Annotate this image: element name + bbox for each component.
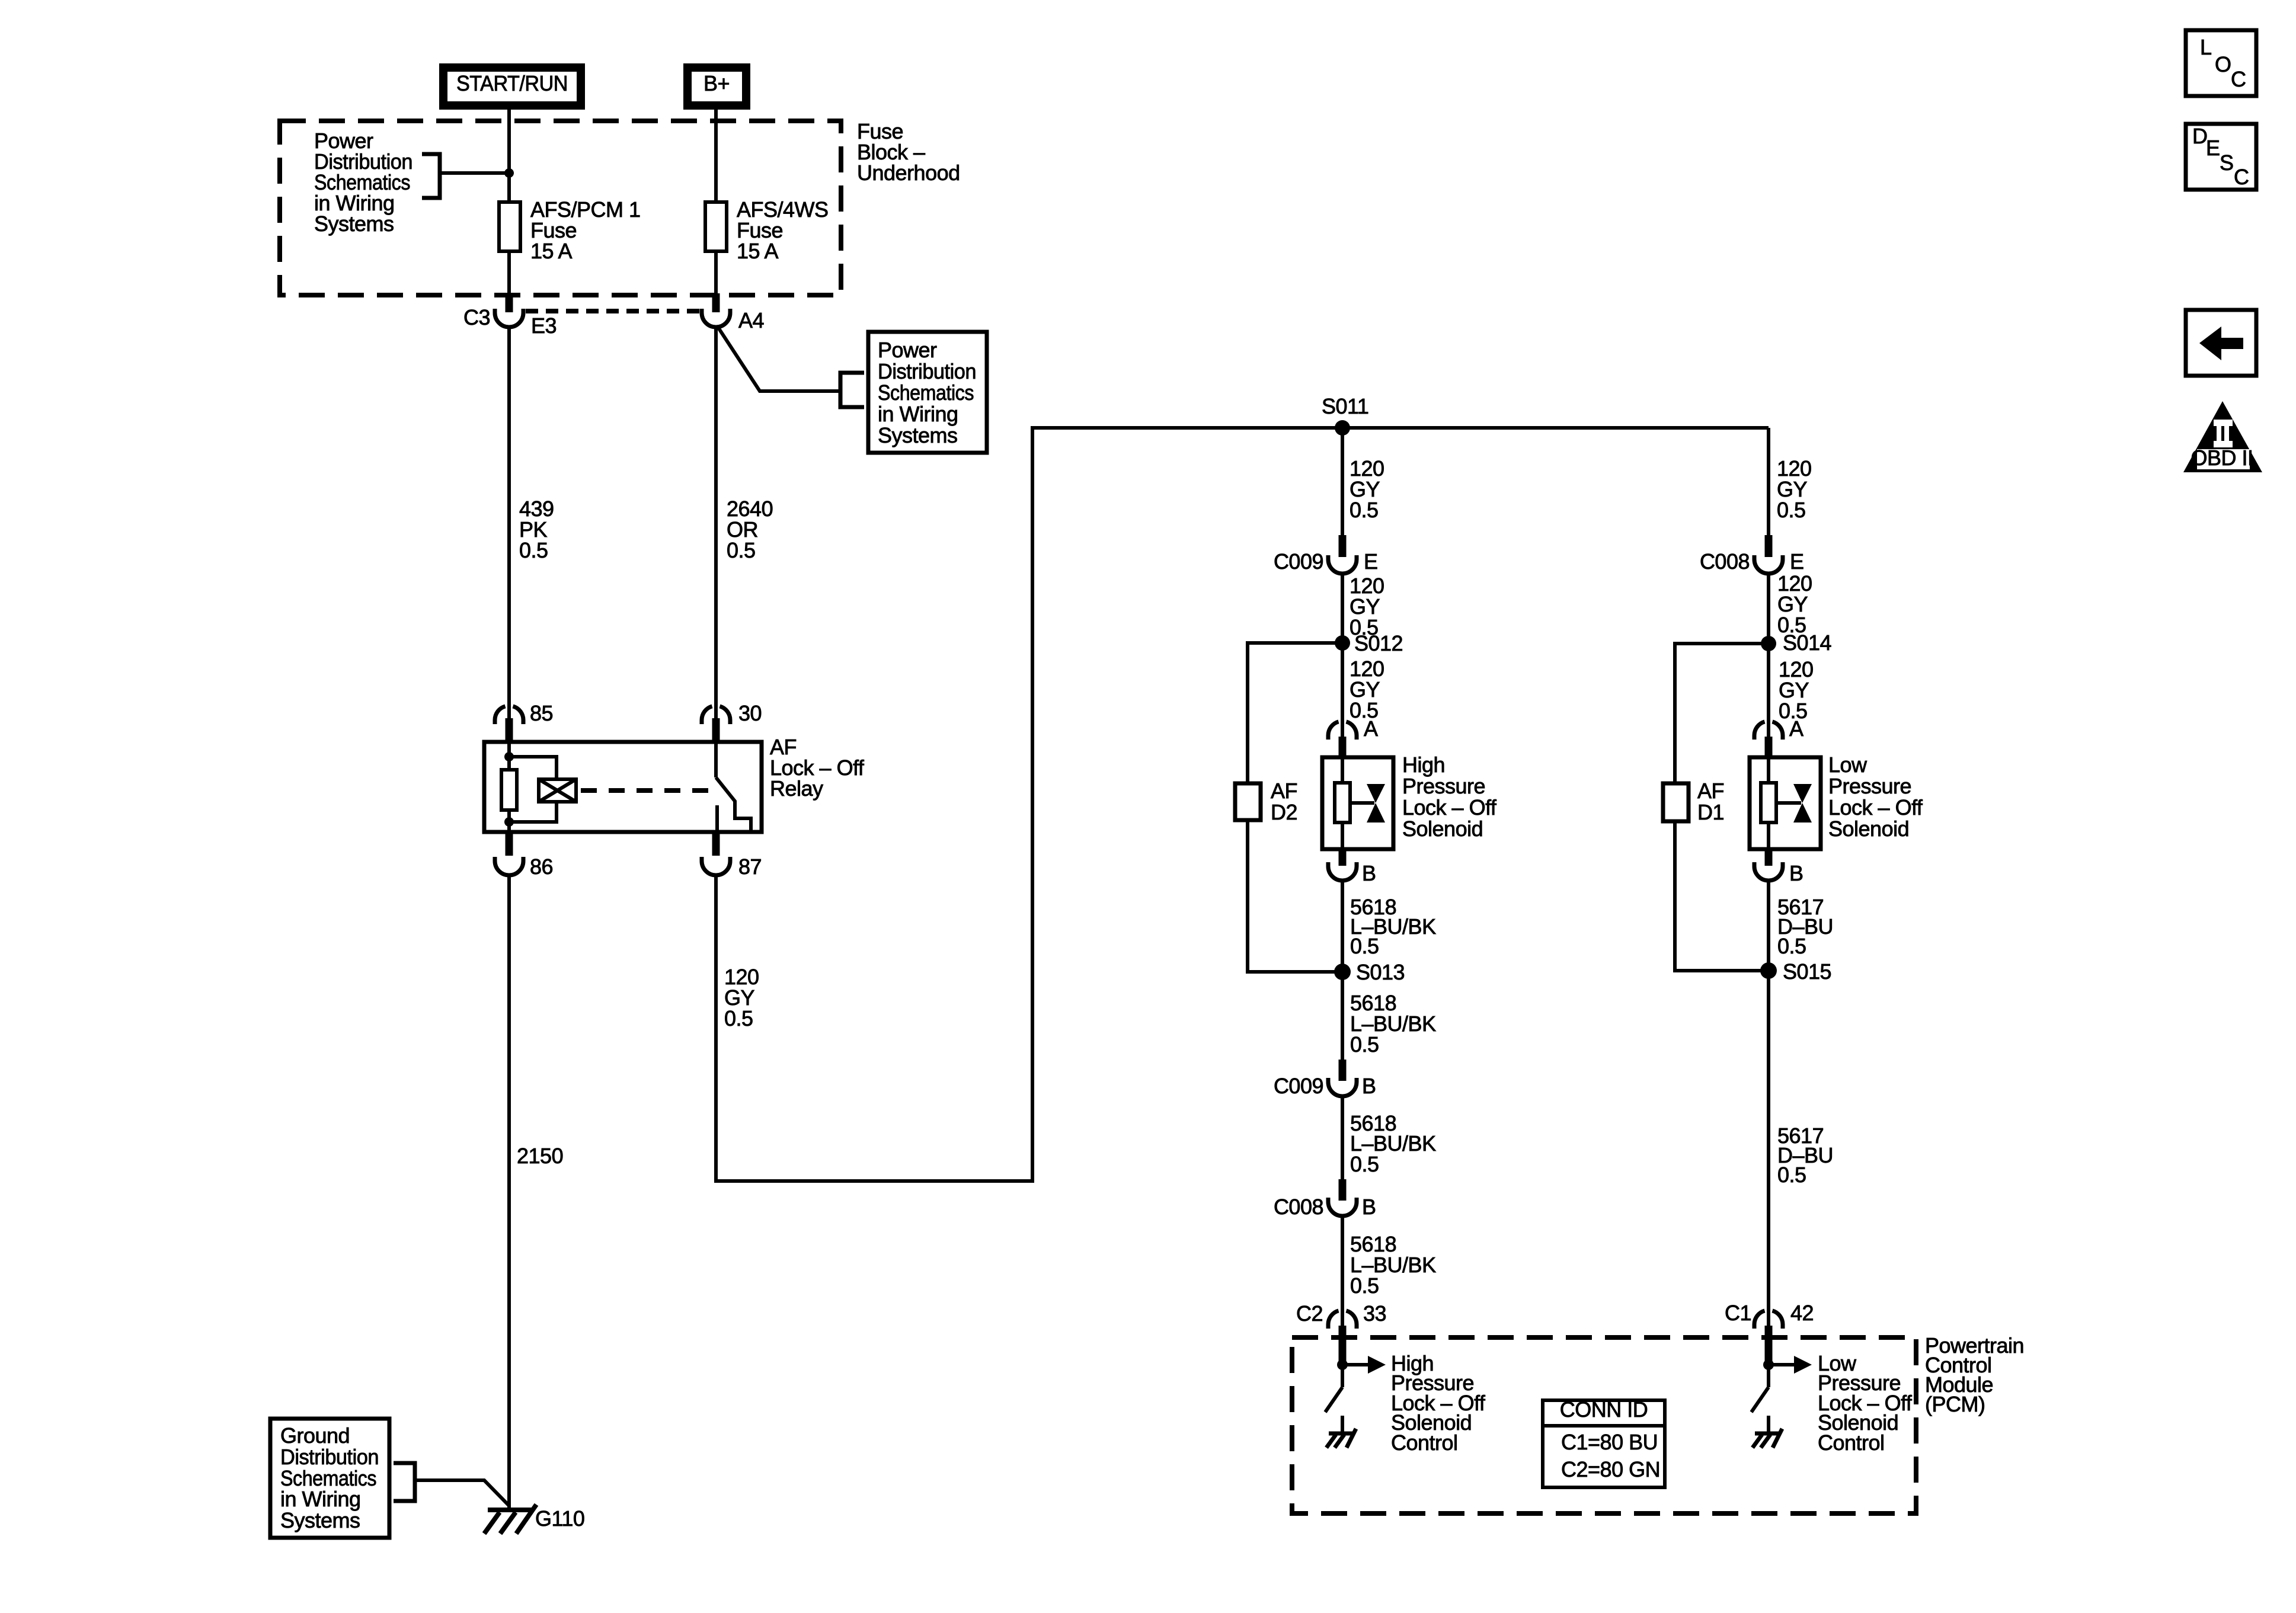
solenoid L High Pressure Lock-Off Solenoid outline xyxy=(1322,757,1393,849)
svg-text:E: E xyxy=(2206,136,2220,160)
resistor solenoid winding xyxy=(1761,783,1776,822)
wire solenoid valve link xyxy=(1776,801,1801,805)
wire A4 reference to Power Distribution Schematics xyxy=(717,326,839,391)
svg-text:Systems: Systems xyxy=(314,212,394,236)
svg-text:0.5: 0.5 xyxy=(727,538,756,562)
svg-text:A4: A4 xyxy=(738,308,764,332)
icon DESC box xyxy=(2186,124,2256,190)
wire 5618 to S013 xyxy=(1341,879,1344,1061)
wire coil top to operator box xyxy=(509,757,557,779)
wire START/RUN to fuse AFS/PCM 1 xyxy=(507,110,511,201)
valve bowtie symbol xyxy=(1367,784,1385,803)
svg-text:85: 85 xyxy=(530,701,553,725)
connector pin A high pressure solenoid xyxy=(1328,722,1357,740)
box Ground Distribution Schematics in Wiring Systems xyxy=(270,1419,389,1538)
svg-text:C008: C008 xyxy=(1700,549,1750,574)
svg-text:33: 33 xyxy=(1363,1301,1386,1326)
valve bowtie symbol xyxy=(1793,784,1812,803)
wire C008 E to S014 xyxy=(1767,574,1770,737)
wire solenoid valve link xyxy=(1350,801,1374,805)
svg-text:in Wiring: in Wiring xyxy=(878,402,958,426)
ground G110 symbol xyxy=(488,1508,533,1512)
node relay coil bottom junction xyxy=(504,817,514,827)
svg-text:30: 30 xyxy=(738,701,762,725)
wire reference stub to Power Distribution Schematics xyxy=(441,171,509,175)
relay K AF Lock-Off Relay outline xyxy=(484,742,762,832)
svg-text:G110: G110 xyxy=(535,1506,584,1531)
connector C009 pin B xyxy=(1339,1060,1347,1081)
wire C008 B to PCM C2 33 xyxy=(1341,1216,1344,1326)
svg-text:0.5: 0.5 xyxy=(1350,1032,1379,1057)
svg-text:C009: C009 xyxy=(1274,549,1323,574)
svg-text:D2: D2 xyxy=(1271,800,1297,824)
svg-text:Systems: Systems xyxy=(878,423,958,447)
svg-text:A: A xyxy=(1364,716,1378,741)
node PCM low pressure input junction xyxy=(1763,1359,1774,1370)
svg-text:Systems: Systems xyxy=(280,1508,360,1532)
wire 5617 to S015 and PCM C1 42 xyxy=(1767,879,1770,1326)
module PCM dashed outline xyxy=(1292,1337,1916,1513)
svg-text:B: B xyxy=(1789,861,1803,885)
connector pin B low pressure solenoid xyxy=(1765,850,1773,866)
wire S014 branch to S015 xyxy=(1675,644,1769,971)
svg-text:S012: S012 xyxy=(1354,631,1403,655)
svg-text:AF: AF xyxy=(1271,779,1297,803)
svg-text:S: S xyxy=(2220,151,2234,175)
connector pin 87 of relay xyxy=(712,833,720,856)
box Power Distribution Schematics in Wiring Systems xyxy=(868,332,987,453)
svg-text:42: 42 xyxy=(1790,1301,1814,1325)
wire solenoid internal bottom xyxy=(1341,822,1344,849)
svg-text:S013: S013 xyxy=(1356,960,1405,984)
svg-text:B: B xyxy=(1362,1195,1376,1219)
svg-text:Lock – Off: Lock – Off xyxy=(1402,795,1497,820)
svg-text:0.5: 0.5 xyxy=(1350,934,1379,958)
fuse block underhood dashed outline xyxy=(280,121,841,295)
svg-text:Low: Low xyxy=(1828,753,1868,777)
wire ground reference stub xyxy=(415,1480,510,1506)
svg-text:B: B xyxy=(1362,861,1376,885)
svg-text:C009: C009 xyxy=(1274,1074,1323,1098)
svg-text:C: C xyxy=(2234,165,2249,189)
wire relay coil left leg xyxy=(507,742,511,770)
svg-text:C1: C1 xyxy=(1725,1301,1751,1325)
node splice S012 xyxy=(1335,635,1350,651)
wire C009 B to C008 B xyxy=(1341,1096,1344,1180)
svg-text:A: A xyxy=(1789,716,1803,741)
wire S012 branch to S013 xyxy=(1248,643,1342,972)
connector pin A low pressure solenoid xyxy=(1754,722,1783,740)
connector A4 xyxy=(712,293,720,312)
svg-text:86: 86 xyxy=(530,854,553,879)
wire B+ to fuse AFS/4WS xyxy=(714,110,718,201)
relay switch contact stub to pin 87 xyxy=(715,805,719,832)
svg-text:Pressure: Pressure xyxy=(1402,774,1485,798)
connector pin B high pressure solenoid xyxy=(1339,850,1347,866)
wire dashed relay actuation link xyxy=(581,788,709,793)
node relay coil top junction xyxy=(504,752,514,761)
connector AF D1 inline box xyxy=(1663,783,1689,821)
bracket Power Distribution Schematics right box xyxy=(840,373,864,407)
relay switch blade xyxy=(716,777,751,832)
svg-text:87: 87 xyxy=(738,854,762,879)
wire coil bottom to operator box xyxy=(509,802,557,822)
svg-text:Control: Control xyxy=(1818,1430,1885,1455)
switch PCM low pressure driver xyxy=(1767,1365,1770,1387)
wire solenoid internal top xyxy=(1341,757,1344,784)
wire S011 bus to C008 E xyxy=(1767,428,1770,536)
ground PCM low pressure xyxy=(1767,1416,1770,1432)
connector pin 85 of AF Lock-Off Relay xyxy=(495,706,523,724)
svg-text:Power: Power xyxy=(878,338,937,362)
wire relay coil left leg lower xyxy=(507,810,511,832)
svg-text:START/RUN: START/RUN xyxy=(456,71,568,95)
wire 2150 ground wire from pin 86 to G110 xyxy=(507,875,511,1508)
svg-text:CONN ID: CONN ID xyxy=(1560,1397,1648,1422)
node B+ power label box xyxy=(687,68,746,105)
node splice S011 xyxy=(1335,420,1350,436)
node splice S013 xyxy=(1334,964,1351,980)
wire C009 E to S012 xyxy=(1341,574,1344,737)
bracket Ground Distribution reference xyxy=(394,1463,415,1501)
svg-text:2150: 2150 xyxy=(517,1144,563,1168)
wire dashed connector tie C3 to A4 xyxy=(526,309,702,313)
svg-text:E: E xyxy=(1364,549,1378,574)
svg-text:(PCM): (PCM) xyxy=(1925,1392,1985,1416)
svg-text:E: E xyxy=(1790,549,1804,574)
table CONN ID xyxy=(1543,1400,1665,1487)
wire 2640 OR 0.5 from A4 to relay pin 30 xyxy=(714,327,718,720)
wire fuse AFS/4WS to connector A4 xyxy=(714,251,718,296)
resistor solenoid winding xyxy=(1335,783,1350,822)
svg-text:OBD II: OBD II xyxy=(2191,446,2253,470)
connector C008 pin E xyxy=(1765,535,1773,557)
wire S011 to C009 E xyxy=(1341,428,1344,536)
svg-text:Pressure: Pressure xyxy=(1828,774,1911,798)
svg-text:S011: S011 xyxy=(1322,394,1368,418)
node junction on START/RUN feed xyxy=(504,168,514,178)
svg-text:0.5: 0.5 xyxy=(1350,1152,1379,1176)
svg-text:0.5: 0.5 xyxy=(1777,934,1806,958)
svg-text:L: L xyxy=(2200,35,2212,59)
svg-text:S014: S014 xyxy=(1783,631,1831,655)
svg-text:0.5: 0.5 xyxy=(1777,1163,1806,1187)
svg-text:AF: AF xyxy=(1697,779,1724,803)
svg-text:D: D xyxy=(2192,124,2208,148)
svg-text:C3: C3 xyxy=(463,305,490,329)
svg-text:in Wiring: in Wiring xyxy=(280,1487,361,1511)
icon LOC box xyxy=(2186,30,2256,96)
solenoid L Low Pressure Lock-Off Solenoid outline xyxy=(1750,757,1821,849)
connector C008 pin B xyxy=(1339,1179,1347,1201)
svg-text:Relay: Relay xyxy=(770,776,823,801)
wire 439 PK 0.5 from C3 to relay pin 85 xyxy=(507,327,511,720)
wire arrow low pressure solenoid control xyxy=(1769,1363,1795,1366)
svg-text:O: O xyxy=(2215,52,2231,76)
svg-text:High: High xyxy=(1402,753,1445,777)
wire 120 GY 0.5 from pin 87 to splice S011 xyxy=(716,428,1769,1181)
svg-text:C008: C008 xyxy=(1274,1195,1323,1219)
wire solenoid internal bottom xyxy=(1767,822,1770,849)
connector C3 pin E3 xyxy=(506,293,513,312)
svg-text:Underhood: Underhood xyxy=(857,161,960,185)
svg-text:0.5: 0.5 xyxy=(724,1006,753,1030)
svg-text:Schematics: Schematics xyxy=(878,380,974,405)
svg-text:15 A: 15 A xyxy=(737,239,779,263)
svg-text:Lock – Off: Lock – Off xyxy=(1828,795,1923,820)
connector pin 86 of relay xyxy=(506,833,513,856)
svg-text:Ground: Ground xyxy=(280,1423,350,1448)
wire fuse AFS/PCM 1 to connector C3 xyxy=(507,251,511,296)
svg-text:15 A: 15 A xyxy=(530,239,573,263)
fuse AFS/PCM 1 15 A xyxy=(499,202,520,251)
icon back arrow box xyxy=(2186,310,2256,376)
svg-text:C: C xyxy=(2231,67,2246,91)
svg-text:Control: Control xyxy=(1391,1430,1458,1455)
svg-text:Solenoid: Solenoid xyxy=(1828,817,1909,841)
connector pin 30 of AF Lock-Off Relay xyxy=(702,706,730,724)
node PCM high pressure input junction xyxy=(1337,1359,1348,1370)
svg-text:Distribution: Distribution xyxy=(280,1445,379,1469)
connector C009 pin E xyxy=(1339,535,1347,557)
connector C2 pin 33 of PCM xyxy=(1328,1311,1357,1329)
wire arrow high pressure solenoid control xyxy=(1342,1363,1369,1366)
node splice S014 xyxy=(1761,636,1776,651)
relay switch common from pin 30 xyxy=(714,742,718,777)
resistor relay coil winding xyxy=(501,770,517,810)
svg-text:Distribution: Distribution xyxy=(878,359,976,383)
svg-text:E3: E3 xyxy=(531,313,557,338)
ground PCM high pressure xyxy=(1341,1416,1344,1432)
connector AF D2 inline box xyxy=(1235,783,1261,820)
relay operator crossed box xyxy=(539,779,576,802)
svg-text:C1=80 BU: C1=80 BU xyxy=(1561,1430,1658,1454)
svg-text:0.5: 0.5 xyxy=(1350,1273,1379,1298)
svg-text:C2=80 GN: C2=80 GN xyxy=(1561,1457,1660,1481)
bracket Power Distribution Schematics reference xyxy=(422,154,440,198)
svg-text:S015: S015 xyxy=(1783,959,1831,984)
connector C1 pin 42 of PCM xyxy=(1754,1311,1783,1329)
svg-text:B: B xyxy=(1362,1074,1376,1098)
svg-text:0.5: 0.5 xyxy=(1350,498,1379,522)
icon OBD II triangle xyxy=(2183,401,2262,472)
switch PCM high pressure driver xyxy=(1341,1365,1344,1387)
svg-text:D1: D1 xyxy=(1697,800,1724,824)
node splice S015 xyxy=(1760,962,1777,979)
svg-text:C2: C2 xyxy=(1296,1301,1323,1326)
svg-text:B+: B+ xyxy=(703,71,730,95)
fuse AFS/4WS 15 A xyxy=(705,202,727,251)
svg-text:0.5: 0.5 xyxy=(519,538,548,562)
svg-text:Solenoid: Solenoid xyxy=(1402,817,1483,841)
wire solenoid internal top xyxy=(1767,757,1770,784)
node START/RUN power label box xyxy=(443,68,581,105)
svg-text:0.5: 0.5 xyxy=(1777,498,1806,522)
